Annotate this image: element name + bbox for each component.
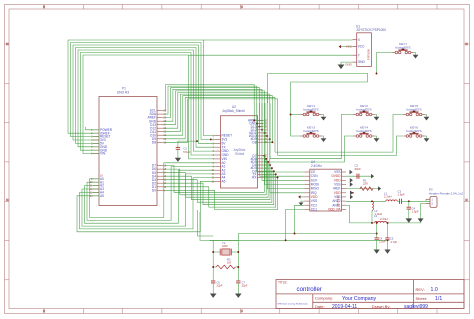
svg-text:Your Company: Your Company	[342, 296, 377, 302]
svg-text:REV:: REV:	[416, 287, 425, 292]
svg-text:TITLE:: TITLE:	[278, 281, 288, 285]
svg-text:VCC: VCC	[358, 45, 365, 49]
svg-text:VDD_PA: VDD_PA	[328, 207, 341, 211]
svg-text:22pF: 22pF	[217, 284, 223, 288]
svg-text:NRF24L01 sheet by WLElektronik: NRF24L01 sheet by WLElektronik	[278, 303, 308, 306]
svg-text:JoyStick_Shield: JoyStick_Shield	[222, 109, 245, 113]
svg-text:XC1: XC1	[311, 207, 317, 211]
svg-text:UNO R3: UNO R3	[117, 91, 129, 95]
svg-text:A5: A5	[222, 179, 226, 183]
svg-text:2.4GHz: 2.4GHz	[311, 164, 322, 168]
svg-text:2.2nH: 2.2nH	[380, 217, 387, 221]
svg-text:22pF: 22pF	[242, 284, 248, 288]
svg-text:GND: GND	[358, 60, 366, 64]
svg-text:saglevi999: saglevi999	[404, 304, 428, 310]
svg-text:L3: L3	[374, 214, 378, 218]
svg-text:1.0: 1.0	[431, 287, 438, 293]
svg-text:1.5pF: 1.5pF	[412, 210, 419, 214]
svg-text:Company:: Company:	[315, 296, 333, 301]
svg-text:JOYSTICK PSP1000: JOYSTICK PSP1000	[356, 28, 386, 32]
svg-text:Header-Female 2.54_1x2: Header-Female 2.54_1x2	[429, 191, 463, 195]
svg-text:Shield: Shield	[235, 152, 244, 156]
svg-text:D0: D0	[152, 188, 156, 192]
svg-text:nRF24L01: nRF24L01	[337, 195, 340, 207]
svg-text:VIN: VIN	[100, 152, 106, 156]
svg-text:Drawn By:: Drawn By:	[372, 304, 390, 309]
svg-text:22K: 22K	[363, 182, 368, 186]
svg-text:Sheet:: Sheet:	[416, 296, 428, 301]
svg-text:1/1: 1/1	[435, 296, 442, 302]
svg-text:D8: D8	[152, 140, 156, 144]
svg-text:33nF: 33nF	[355, 167, 362, 171]
svg-text:PSP1000: PSP1000	[367, 48, 371, 60]
svg-text:C5: C5	[390, 237, 394, 241]
svg-text:A5: A5	[100, 194, 104, 198]
svg-text:2019-04-11: 2019-04-11	[332, 304, 357, 310]
svg-text:5.5uF: 5.5uF	[183, 150, 190, 154]
svg-text:Date:: Date:	[315, 304, 325, 309]
svg-text:16M: 16M	[222, 244, 228, 248]
svg-text:2.2nH: 2.2nH	[384, 195, 391, 199]
svg-text:VCC: VCC	[346, 45, 352, 49]
svg-text:1M: 1M	[227, 261, 232, 265]
svg-text:1.5pF: 1.5pF	[398, 193, 405, 197]
svg-text:D8: D8	[252, 140, 256, 144]
svg-text:4.7pF: 4.7pF	[391, 240, 398, 244]
svg-text:GND: GND	[345, 62, 351, 66]
svg-text:controller: controller	[297, 286, 322, 293]
